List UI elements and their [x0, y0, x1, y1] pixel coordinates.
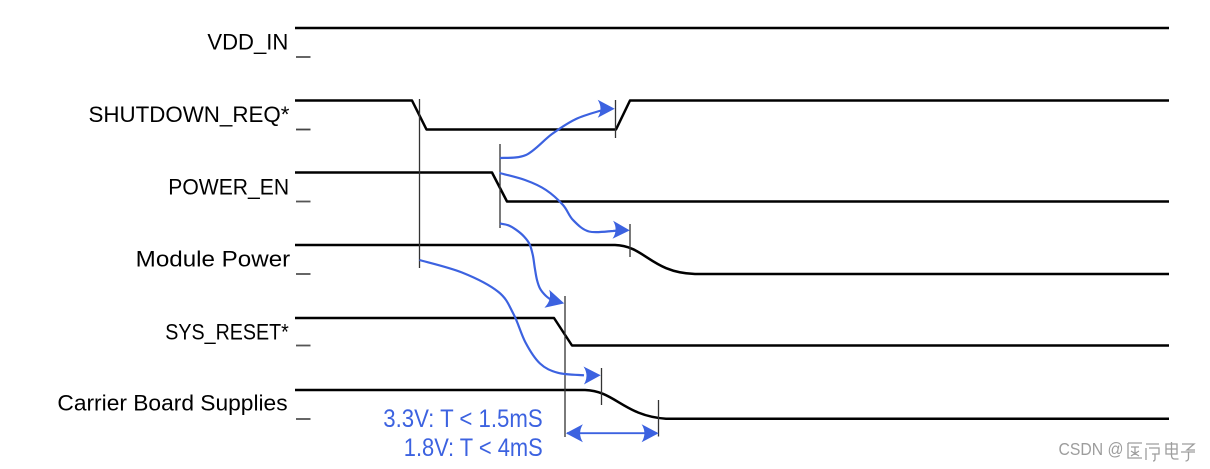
arrow POWER_EN to Module Power fall — [500, 173, 630, 239]
arrow POWER_EN to SHUTDOWN_REQ* rise — [500, 100, 615, 158]
svg-text:SHUTDOWN_REQ*: SHUTDOWN_REQ* — [89, 102, 290, 127]
svg-text:3.3V: T < 1.5mS: 3.3V: T < 1.5mS — [383, 405, 542, 433]
wire VDD_IN waveform — [295, 27, 1169, 30]
low-level tick SHUTDOWN_REQ* — [296, 129, 311, 131]
tick at Carrier Supplies fall end — [658, 400, 660, 437]
dimension double arrow 3.3V/1.8V timing — [566, 424, 659, 442]
svg-text:VDD_IN: VDD_IN — [207, 29, 288, 54]
wire SHUTDOWN_REQ* waveform — [295, 101, 1169, 130]
svg-text:SYS_RESET*: SYS_RESET* — [165, 320, 289, 345]
arrow POWER_EN tick to SYS_RESET* fall — [500, 224, 564, 308]
tick at POWER_EN fall — [499, 144, 501, 228]
watermark CSDN — [1059, 439, 1124, 459]
tick at SYS_RESET* fall (long) — [564, 296, 566, 437]
low-level tick Module Power — [296, 273, 311, 275]
low-level tick SYS_RESET* — [296, 345, 311, 347]
wire Module Power waveform — [295, 245, 1169, 274]
wire POWER_EN waveform — [295, 173, 1169, 202]
watermark CJK glyphs — [1128, 442, 1195, 461]
tick at SHUTDOWN_REQ* fall — [419, 99, 421, 268]
low-level tick VDD_IN — [296, 56, 311, 58]
wire SYS_RESET* waveform — [295, 318, 1169, 346]
arrow SHUTDOWN_REQ* tick to Carrier Supplies fall — [420, 260, 601, 385]
tick at Carrier Supplies fall start — [601, 368, 603, 405]
svg-text:POWER_EN: POWER_EN — [168, 175, 289, 200]
tick at Module Power fall — [629, 224, 631, 257]
svg-text:Carrier Board Supplies: Carrier Board Supplies — [57, 391, 287, 416]
svg-text:1.8V: T < 4mS: 1.8V: T < 4mS — [404, 434, 543, 462]
low-level tick POWER_EN — [296, 201, 311, 203]
low-level tick Carrier Board Supplies — [296, 418, 311, 420]
wire Carrier Board Supplies waveform — [295, 390, 1169, 419]
tick at SHUTDOWN_REQ* rise — [615, 100, 617, 138]
svg-text:CSDN @: CSDN @ — [1059, 439, 1124, 459]
svg-text:Module Power: Module Power — [136, 246, 291, 271]
